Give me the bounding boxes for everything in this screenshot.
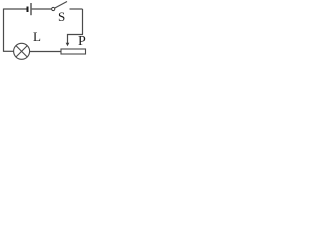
switch S blade (55, 2, 67, 9)
battery B1 positive plate (30, 3, 32, 15)
svg-text:L: L (33, 29, 41, 44)
wire right vertical (82, 9, 84, 35)
switch S pivot circle (52, 7, 55, 10)
svg-text:P: P (78, 34, 86, 49)
wire to rheostat slider (68, 35, 84, 44)
wire left vertical (3, 9, 5, 52)
svg-text:S: S (58, 9, 65, 24)
rheostat P body (61, 49, 86, 54)
wire top-left horizontal (4, 8, 27, 10)
wire switch to top-right corner (70, 8, 83, 10)
battery B1 negative plate (27, 7, 29, 13)
rheostat P slider arrowhead (66, 43, 70, 46)
wire rheostat to lamp (30, 51, 61, 53)
wire battery to switch (32, 8, 52, 10)
lamp L cross (16, 46, 27, 57)
lamp L circle (14, 43, 30, 59)
wire lamp to bottom-left corner (4, 50, 14, 52)
